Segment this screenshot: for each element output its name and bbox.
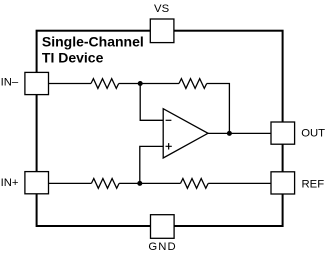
pin REF <box>271 172 295 194</box>
wire R2 to output node <box>207 84 230 134</box>
node A junction <box>138 81 143 86</box>
svg-text:TI Device: TI Device <box>42 50 104 66</box>
wire IN- to inverting node <box>49 83 92 85</box>
wire node B to non-inverting input <box>140 146 163 183</box>
pin GND <box>151 215 175 239</box>
op-amp inverting input marker <box>166 119 172 121</box>
svg-text:REF: REF <box>302 179 325 191</box>
resistor R2 feedback <box>179 79 207 89</box>
wire node A to R2 <box>140 83 179 85</box>
pin OUT <box>271 122 295 144</box>
pin VS <box>150 19 174 43</box>
wire node A to inverting input <box>140 84 163 121</box>
wire node B to R4 <box>140 182 181 184</box>
wire R3 to node B <box>119 182 140 184</box>
svg-text:VS: VS <box>154 3 170 15</box>
wire op-amp output to OUT pin <box>208 132 271 134</box>
op-amp non-inverting input marker <box>166 143 172 149</box>
svg-text:IN–: IN– <box>1 77 19 89</box>
wire R1 to node A <box>119 83 141 85</box>
resistor R3 <box>91 179 119 189</box>
device outline <box>37 31 283 226</box>
output node junction <box>227 131 232 136</box>
node B junction <box>137 181 142 186</box>
resistor R4 <box>181 179 209 189</box>
op-amp U1 <box>163 109 208 158</box>
pin IN+ <box>25 172 49 194</box>
svg-text:IN+: IN+ <box>1 177 19 189</box>
svg-text:Single-Channel: Single-Channel <box>42 34 144 50</box>
svg-text:OUT: OUT <box>301 128 325 140</box>
pin IN- <box>25 72 49 94</box>
resistor R1 <box>91 79 119 89</box>
svg-text:GND: GND <box>148 241 176 253</box>
wire IN+ to R3 <box>49 182 92 184</box>
wire R4 to REF pin <box>208 182 271 184</box>
